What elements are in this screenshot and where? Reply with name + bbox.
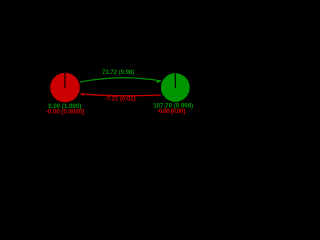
node S1 red pie (50, 73, 80, 103)
wire green edge red->green (80, 78, 161, 82)
svg-text:-7.21 (0.02): -7.21 (0.02) (105, 96, 136, 102)
pie slice line node S1 (64, 73, 66, 88)
svg-text:-0.00 [0.00]: -0.00 [0.00] (157, 108, 185, 115)
wire red edge green->red (85, 94, 161, 95)
node S2 green pie (161, 73, 190, 102)
arrowhead green edge (156, 80, 161, 84)
svg-text:73.72 (0.98): 73.72 (0.98) (102, 70, 134, 76)
pie slice line node S2 (174, 73, 176, 88)
arrowhead red edge (79, 93, 84, 97)
svg-text:-0.00 [0.0000]: -0.00 [0.0000] (46, 108, 84, 115)
